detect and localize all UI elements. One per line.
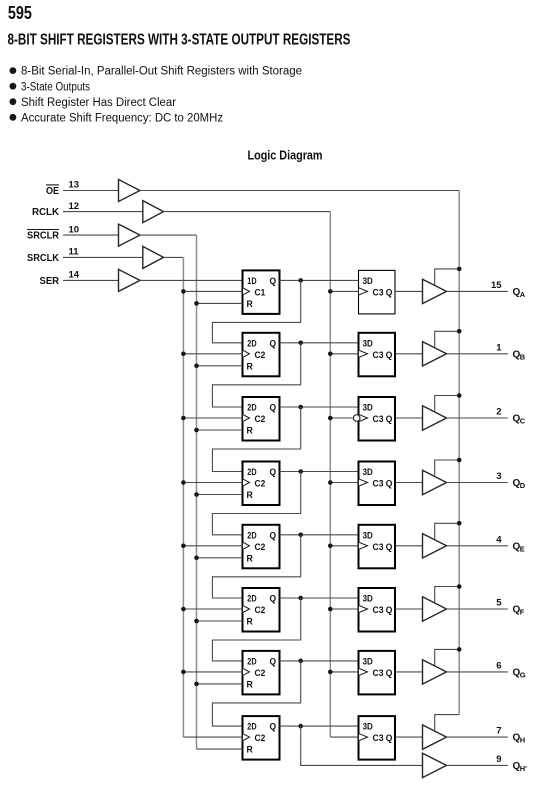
junction node QFS [298, 596, 303, 601]
svg-text:C3: C3 [373, 414, 384, 425]
wire output QA lead [447, 290, 508, 292]
svg-text:2D: 2D [247, 656, 256, 667]
junction node QDS [298, 469, 303, 474]
junction SRCLK rail row 5 [181, 544, 186, 549]
junction SRCLR rail row 6 [194, 619, 199, 624]
output latch L5 (3D C3) [359, 525, 396, 569]
junction SRCLK rail row 7 [181, 670, 186, 675]
svg-text:R: R [247, 745, 253, 756]
net label SRCLR (input) [27, 230, 60, 242]
wire SRCLR rail to FF6 reset [197, 620, 243, 622]
L7 clock wedge [359, 668, 368, 675]
svg-text:R: R [247, 361, 253, 372]
buffer SRCLR driver [119, 224, 141, 246]
svg-text:C3: C3 [373, 479, 384, 490]
svg-text:C3: C3 [373, 350, 384, 361]
svg-text:9: 9 [496, 754, 501, 765]
wire L7 Q to output buffer [395, 671, 423, 673]
wire SRCLK rail to FF8 clock [183, 736, 242, 738]
wire FF3 Q to FF4 data (inter-stage) [212, 407, 300, 472]
junction SRCLR rail row 3 [194, 428, 199, 433]
FF4 clock wedge [243, 479, 250, 486]
wire buffer QE enable to OE rail [435, 523, 460, 539]
L3 clock wedge [359, 414, 368, 421]
three-state output buffer QG [423, 660, 447, 684]
L8 clock wedge [359, 733, 368, 740]
flip-flop FF4 (2D C2 R) [243, 462, 280, 506]
junction SRCLK rail row 3 [181, 416, 186, 421]
svg-text:10: 10 [69, 224, 80, 235]
junction RCLK rail row 3 [328, 416, 333, 421]
L5 clock wedge [359, 542, 368, 549]
svg-text:3D: 3D [363, 276, 373, 287]
svg-text:Q: Q [270, 403, 277, 414]
wire RCLK to C3 clock rail [164, 211, 331, 213]
wire L2 Q to output buffer [395, 353, 423, 355]
wire SRCLR rail to FF5 reset [197, 557, 243, 559]
svg-text:Q: Q [270, 276, 277, 287]
flip-flop FF7 (2D C2 R) [243, 651, 280, 695]
buffer RCLK driver [143, 201, 164, 223]
net label QG [513, 668, 526, 680]
svg-text:Q: Q [386, 542, 393, 553]
net label RCLK (input) [32, 207, 60, 218]
flip-flop FF3 (2D C2 R) [243, 397, 280, 441]
bullet item: 3-State Outputs [10, 81, 91, 93]
output latch L1 (3D C3) [359, 270, 396, 314]
junction RCLK rail row 4 [328, 480, 333, 485]
wire RCLK rail to L4 clock [330, 482, 358, 484]
FF7 clock wedge [243, 668, 250, 675]
wire SRCLK rail (vertical) [182, 257, 184, 737]
junction SRCLK rail row 1 [181, 289, 186, 294]
svg-text:Q: Q [270, 722, 277, 733]
svg-text:15: 15 [491, 280, 502, 291]
three-state output buffer QF [423, 597, 447, 621]
junction SRCLK rail row 6 [181, 607, 186, 612]
svg-text:RCLK: RCLK [32, 207, 60, 218]
wire buffer QA enable to OE rail [435, 269, 460, 285]
flip-flop FF6 (2D C2 R) [243, 588, 280, 632]
FF8 clock wedge [243, 733, 250, 740]
net label SRCLK (input) [27, 253, 60, 264]
wire L3 Q to output buffer [395, 417, 423, 419]
L4 clock wedge [359, 479, 368, 486]
junction OE rail row 6 [457, 584, 462, 589]
FF3 clock wedge [243, 414, 250, 421]
buffer OE driver [119, 180, 141, 202]
svg-text:1: 1 [496, 342, 502, 353]
wire SRCLR to reset rail [140, 234, 197, 236]
svg-text:H': H' [520, 764, 527, 773]
wire FF6 Q to latch L6 3D input [280, 597, 359, 599]
svg-text:3D: 3D [363, 403, 373, 414]
svg-text:Q: Q [270, 530, 277, 541]
wire buffer QC enable to OE rail [435, 396, 460, 412]
svg-text:C3: C3 [373, 668, 384, 679]
wire FF6 Q to FF7 data (inter-stage) [212, 598, 300, 661]
svg-text:3D: 3D [363, 656, 373, 667]
svg-text:7: 7 [496, 726, 501, 737]
wire FF4 Q to latch L4 3D input [280, 471, 359, 473]
wire FF7 Q to latch L7 3D input [280, 660, 359, 662]
svg-text:C2: C2 [255, 733, 266, 744]
svg-text:3D: 3D [363, 722, 373, 733]
svg-text:OE: OE [46, 186, 59, 197]
wire FF8 Q to QH' buffer [301, 726, 423, 765]
wire output QD lead [447, 482, 508, 484]
svg-text:C3: C3 [373, 542, 384, 553]
svg-text:R: R [247, 490, 253, 501]
wire OE input lead [63, 190, 119, 192]
wire output QH' lead [447, 764, 508, 766]
svg-text:SRCLK: SRCLK [27, 253, 60, 264]
svg-text:12: 12 [69, 201, 80, 212]
svg-text:3D: 3D [363, 530, 373, 541]
wire RCLK rail to L8 clock [330, 736, 358, 738]
buffer SER driver [119, 269, 141, 291]
junction SRCLR rail row 1 [194, 301, 199, 306]
net label QF [513, 605, 525, 617]
wire RCLK rail to L5 clock [330, 545, 358, 547]
svg-text:C2: C2 [255, 605, 266, 616]
svg-text:13: 13 [69, 180, 80, 191]
wire RCLK rail to L7 clock [330, 671, 358, 673]
svg-text:2D: 2D [247, 530, 256, 541]
L2 clock wedge [359, 350, 368, 357]
wire SRCLR rail to FF2 reset [197, 365, 243, 367]
wire SRCLK rail to FF4 clock [183, 482, 242, 484]
three-state output buffer QB [423, 342, 447, 366]
wire output QF lead [447, 608, 508, 610]
junction RCLK rail row 5 [328, 544, 333, 549]
wire SRCLR rail (vertical) [196, 235, 198, 749]
output latch L8 (3D C3) [359, 716, 396, 760]
net label OE (input) [46, 185, 59, 197]
svg-text:R: R [247, 426, 253, 437]
svg-text:Accurate Shift Frequency: DC t: Accurate Shift Frequency: DC to 20MHz [21, 112, 223, 124]
svg-text:C2: C2 [255, 350, 266, 361]
svg-text:2D: 2D [247, 722, 256, 733]
svg-text:R: R [247, 299, 253, 310]
svg-text:8-Bit Serial-In, Parallel-Out: 8-Bit Serial-In, Parallel-Out Shift Regi… [21, 66, 302, 78]
junction SRCLK rail row 2 [181, 352, 186, 357]
svg-text:3D: 3D [363, 338, 373, 349]
junction node QHS [298, 724, 303, 729]
wire SRCLK rail to FF3 clock [183, 417, 242, 419]
wire RCLK rail to L2 clock [330, 353, 358, 355]
junction RCLK rail row 7 [328, 670, 333, 675]
junction SRCLR rail row 2 [194, 364, 199, 369]
wire RCLK input lead [63, 211, 143, 213]
svg-text:6: 6 [496, 660, 501, 671]
wire SRCLR rail to FF7 reset [197, 683, 243, 685]
output latch L4 (3D C3) [359, 462, 396, 506]
svg-text:8-BIT SHIFT REGISTERS WITH 3-S: 8-BIT SHIFT REGISTERS WITH 3-STATE OUTPU… [8, 31, 351, 48]
net label SER (input) [40, 276, 60, 287]
svg-text:R: R [247, 679, 253, 690]
junction RCLK rail row 2 [328, 352, 333, 357]
wire FF2 Q to FF3 data (inter-stage) [212, 343, 300, 407]
svg-text:3-State Outputs: 3-State Outputs [21, 81, 90, 93]
wire L1 Q to output buffer [395, 290, 423, 292]
wire FF4 Q to FF5 data (inter-stage) [212, 472, 300, 535]
junction RCLK rail row 6 [328, 607, 333, 612]
svg-text:14: 14 [69, 270, 80, 281]
svg-text:Shift Register Has Direct Clea: Shift Register Has Direct Clear [21, 97, 176, 109]
wire RCLK rail to L6 clock [330, 608, 358, 610]
wire SRCLR rail to FF1 reset [197, 302, 243, 304]
svg-text:B: B [520, 352, 526, 361]
svg-text:Q: Q [270, 656, 277, 667]
svg-text:Q: Q [386, 668, 393, 679]
svg-text:Q: Q [270, 467, 277, 478]
junction RCLK rail row 1 [328, 289, 333, 294]
junction OE rail row 7 [457, 647, 462, 652]
flip-flop FF5 (2D C2 R) [243, 525, 280, 569]
net label QC [513, 414, 526, 426]
wire SER input lead [63, 279, 119, 281]
svg-text:C: C [520, 417, 526, 426]
output latch L7 (3D C3) [359, 651, 396, 695]
junction node QBS [298, 341, 303, 346]
wire FF3 Q to latch L3 3D input [280, 406, 359, 408]
L6 clock wedge [359, 605, 368, 612]
svg-text:C2: C2 [255, 668, 266, 679]
wire FF8 Q to latch L8 3D input [280, 725, 359, 727]
svg-text:C2: C2 [255, 542, 266, 553]
svg-text:Q: Q [270, 594, 277, 605]
wire SRCLK input lead [63, 256, 143, 258]
wire SRCLK rail to FF1 clock [183, 290, 242, 292]
three-state output buffer QC [423, 406, 447, 430]
wire FF2 Q to latch L2 3D input [280, 342, 359, 344]
wire output QE lead [447, 545, 508, 547]
net label QA [513, 287, 526, 299]
svg-text:2D: 2D [247, 403, 256, 414]
wire L8 Q to output buffer [395, 736, 423, 738]
wire SRCLK rail to FF6 clock [183, 608, 242, 610]
net label QH [513, 733, 526, 745]
junction OE rail row 3 [457, 393, 462, 398]
wire SER to FF1 data input [140, 279, 243, 281]
bullet item: Accurate Shift Frequency: DC to 20MHz [10, 112, 224, 124]
svg-text:F: F [520, 608, 525, 617]
junction SRCLK rail row 4 [181, 480, 186, 485]
three-state output buffer QA [423, 279, 447, 303]
svg-text:3: 3 [496, 471, 501, 482]
wire SRCLK to shift clock rail [164, 256, 184, 258]
wire RCLK rail to L3 clock [330, 417, 353, 419]
wire output QB lead [447, 353, 508, 355]
junction SRCLR rail row 4 [194, 492, 199, 497]
net label QH' [513, 761, 528, 773]
svg-text:E: E [520, 544, 525, 553]
wire L6 Q to output buffer [395, 608, 423, 610]
three-state output buffer QE [423, 534, 447, 558]
wire SRCLR rail to FF4 reset [197, 494, 243, 496]
svg-text:D: D [520, 481, 526, 490]
wire FF1 Q to FF2 data (inter-stage) [212, 280, 300, 342]
junction node QCS [298, 405, 303, 410]
svg-text:H: H [520, 736, 525, 745]
junction OE rail row 4 [457, 458, 462, 463]
svg-text:R: R [247, 617, 253, 628]
buffer QH' driver [423, 753, 447, 777]
junction OE rail row 1 [457, 267, 462, 272]
svg-text:11: 11 [69, 247, 80, 258]
net label QD [513, 478, 526, 490]
svg-text:2D: 2D [247, 594, 256, 605]
svg-text:595: 595 [8, 3, 32, 23]
junction OE rail row 2 [457, 329, 462, 334]
svg-text:Q: Q [386, 414, 393, 425]
svg-text:Q: Q [386, 350, 393, 361]
junction SRCLR rail row 7 [194, 682, 199, 687]
svg-text:Q: Q [386, 733, 393, 744]
svg-text:C3: C3 [373, 733, 384, 744]
L1 clock wedge [359, 288, 368, 295]
wire RCLK rail to L1 clock [330, 290, 358, 292]
svg-text:A: A [520, 290, 526, 299]
svg-text:C2: C2 [255, 414, 266, 425]
wire FF5 Q to latch L5 3D input [280, 534, 359, 536]
svg-text:1D: 1D [247, 276, 256, 287]
wire RCLK rail (vertical) [329, 212, 331, 738]
flip-flop FF2 (2D C2 R) [243, 333, 280, 377]
wire L5 Q to output buffer [395, 545, 423, 547]
svg-text:4: 4 [496, 534, 502, 545]
stray bubble on L3 clock input [353, 415, 360, 422]
wire buffer QF enable to OE rail [435, 587, 460, 603]
wire buffer QH enable to OE rail [435, 715, 460, 731]
junction SRCLR rail row 5 [194, 556, 199, 561]
svg-text:R: R [247, 553, 253, 564]
net label QB [513, 349, 526, 361]
wire OE to enable rail [140, 190, 459, 192]
net label QE [513, 541, 525, 553]
output latch L6 (3D C3) [359, 588, 396, 632]
svg-text:C3: C3 [373, 287, 384, 298]
wire FF7 Q to FF8 data (inter-stage) [212, 661, 300, 726]
FF2 clock wedge [243, 350, 250, 357]
wire buffer QD enable to OE rail [435, 460, 460, 476]
svg-text:C3: C3 [373, 605, 384, 616]
svg-text:2D: 2D [247, 338, 256, 349]
wire output QC lead [447, 417, 508, 419]
svg-text:Q: Q [386, 605, 393, 616]
svg-text:5: 5 [496, 598, 502, 609]
svg-text:Logic Diagram: Logic Diagram [248, 147, 323, 162]
output latch L3 (3D C3) [359, 397, 396, 441]
junction node QGS [298, 659, 303, 664]
junction node QES [298, 533, 303, 538]
svg-text:C1: C1 [255, 287, 266, 298]
flip-flop FF1 (1D C1 R) [243, 270, 280, 314]
svg-text:C2: C2 [255, 479, 266, 490]
flip-flop FF8 (2D C2 R) [243, 716, 280, 760]
wire buffer QG enable to OE rail [435, 649, 460, 665]
svg-text:3D: 3D [363, 467, 373, 478]
FF6 clock wedge [243, 605, 250, 612]
buffer SRCLK driver [143, 246, 164, 268]
wire L4 Q to output buffer [395, 482, 423, 484]
svg-text:2: 2 [496, 407, 501, 418]
svg-text:Q: Q [270, 338, 277, 349]
svg-text:3D: 3D [363, 594, 373, 605]
bullet item: Shift Register Has Direct Clear [10, 97, 177, 109]
output latch L2 (3D C3) [359, 333, 396, 377]
junction node QAS [298, 278, 303, 283]
wire FF1 Q to latch L1 3D input [280, 279, 359, 281]
svg-text:SER: SER [40, 276, 60, 287]
wire SRCLK rail to FF7 clock [183, 671, 242, 673]
wire SRCLR input lead [63, 234, 119, 236]
wire FF5 Q to FF6 data (inter-stage) [212, 535, 300, 598]
three-state output buffer QH [423, 725, 447, 749]
wire output QG lead [447, 671, 508, 673]
svg-text:SRCLR: SRCLR [27, 231, 60, 242]
three-state output buffer QD [423, 470, 447, 494]
wire SRCLK rail to FF2 clock [183, 353, 242, 355]
svg-text:Q: Q [386, 287, 393, 298]
wire SRCLK rail to FF5 clock [183, 545, 242, 547]
wire SRCLR rail to FF3 reset [197, 429, 243, 431]
wire output QH lead [447, 736, 508, 738]
FF1 clock wedge [243, 288, 250, 295]
svg-text:2D: 2D [247, 467, 256, 478]
FF5 clock wedge [243, 542, 250, 549]
wire SRCLR rail to FF8 reset [197, 748, 243, 750]
bullet item: 8-Bit Serial-In, Parallel-Out Shift Registers with Storage [10, 66, 303, 78]
junction OE rail row 5 [457, 521, 462, 526]
svg-text:G: G [520, 671, 526, 680]
wire OE enable rail (vertical) [458, 191, 460, 715]
svg-text:Q: Q [386, 479, 393, 490]
wire buffer QB enable to OE rail [435, 331, 460, 347]
